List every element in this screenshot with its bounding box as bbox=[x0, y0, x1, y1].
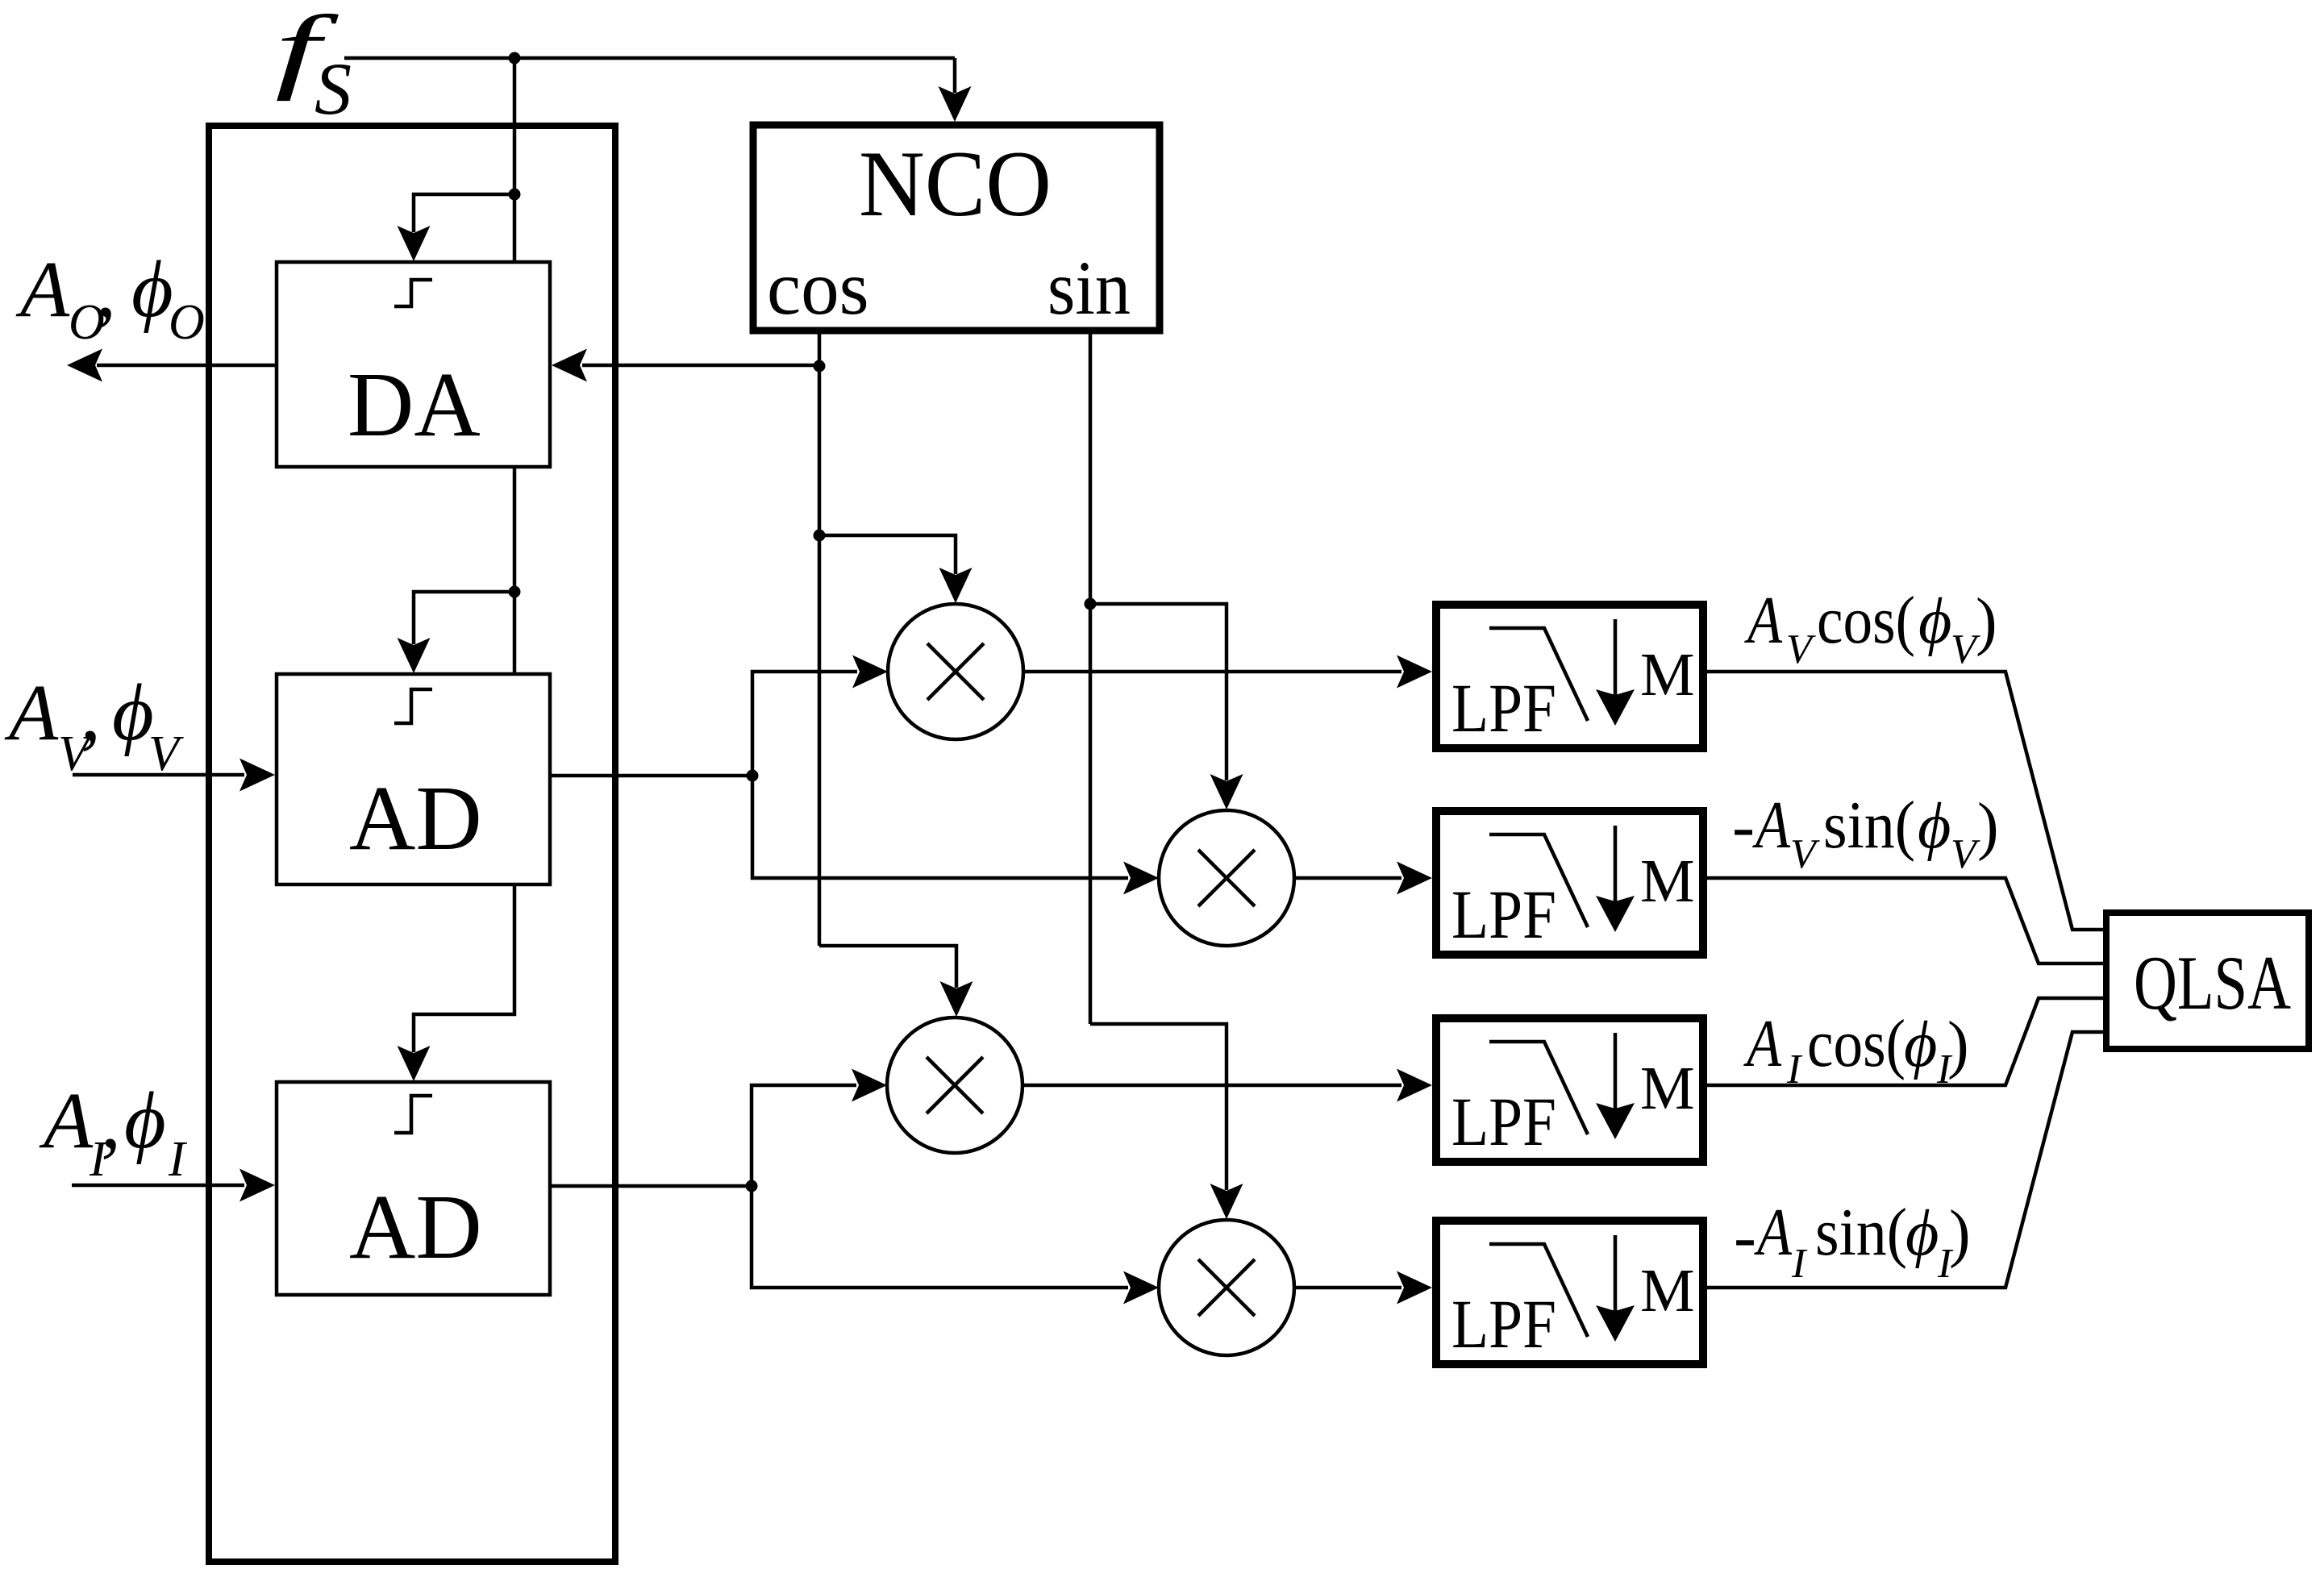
multiplier X1 bbox=[888, 604, 1023, 739]
svg-text:QLSA: QLSA bbox=[2134, 940, 2291, 1026]
label -AI sin phiI bbox=[1734, 1195, 1971, 1287]
wire mult2 output to LPF2 bbox=[1294, 862, 1432, 895]
wire cos feed into DA with arrow bbox=[552, 349, 819, 382]
svg-text:M: M bbox=[1640, 847, 1695, 915]
svg-text:AD: AD bbox=[349, 1176, 482, 1278]
svg-text:-: - bbox=[1732, 789, 1755, 863]
wire AI input arrow bbox=[72, 1169, 275, 1202]
svg-text:): ) bbox=[1976, 586, 1997, 657]
svg-text:M: M bbox=[1640, 641, 1695, 709]
clock symbol DA bbox=[394, 280, 432, 306]
clock symbol AD2 bbox=[394, 1096, 432, 1133]
svg-text:ϕ: ϕ bbox=[1904, 1009, 1937, 1080]
wire AD1 branch up to mult1 left bbox=[752, 655, 888, 776]
wire NCO sin output drop bbox=[1089, 331, 1093, 1024]
svg-text:,: , bbox=[96, 244, 116, 334]
svg-text:A: A bbox=[15, 244, 70, 334]
label AO phiO bbox=[15, 244, 205, 350]
wire AV input arrow bbox=[73, 759, 275, 792]
multiplier X3 bbox=[887, 1017, 1022, 1153]
svg-text:LPF: LPF bbox=[1451, 1083, 1556, 1160]
wire fS rail between AD1 and AD2 with clock branch bbox=[398, 884, 515, 1081]
outer frame box bbox=[209, 126, 615, 1562]
label AI phiI bbox=[39, 1076, 188, 1187]
svg-text:sin(: sin( bbox=[1823, 788, 1915, 863]
block LPF3 with decimator bbox=[1436, 1018, 1703, 1162]
wire fS vertical rail upper (to DA top) bbox=[513, 58, 517, 263]
wire fS drop into NCO with arrow bbox=[939, 58, 972, 122]
node junction AD2 output bbox=[746, 1180, 758, 1192]
svg-text:cos(: cos( bbox=[1807, 1006, 1905, 1081]
svg-text:M: M bbox=[1640, 1257, 1695, 1325]
wire mult1 output to LPF1 bbox=[1023, 655, 1432, 689]
svg-text:A: A bbox=[39, 1076, 94, 1165]
label AI cos phiI bbox=[1743, 1006, 1969, 1092]
multiplier X4 bbox=[1159, 1220, 1294, 1355]
wire fS horizontal rail bbox=[344, 56, 955, 60]
block LPF4 with decimator bbox=[1436, 1221, 1703, 1364]
wire sin branch to mult2 top bbox=[1090, 604, 1243, 809]
wire LPF4 output with diagonal to QLSA in4 bbox=[1707, 1032, 2106, 1288]
svg-text:LPF: LPF bbox=[1451, 876, 1556, 953]
wire mult3 output to LPF3 bbox=[1022, 1069, 1432, 1102]
clock symbol AD1 bbox=[394, 689, 432, 723]
label -AV sin phiV bbox=[1732, 788, 1999, 877]
svg-text:M: M bbox=[1640, 1055, 1695, 1122]
label AV cos phiV bbox=[1744, 583, 1997, 672]
block AD2 bbox=[277, 1082, 550, 1295]
svg-text:cos: cos bbox=[767, 245, 869, 331]
multiplier X2 bbox=[1159, 810, 1294, 946]
wire DA clock branch bbox=[398, 194, 515, 261]
svg-text:A: A bbox=[1752, 788, 1791, 863]
wire AD2 branch up to mult3 left bbox=[752, 1069, 887, 1187]
block LPF1 with decimator bbox=[1436, 605, 1703, 748]
node junction sin to mult2 bbox=[1085, 598, 1097, 610]
wire cos branch to mult1 top bbox=[819, 535, 972, 603]
wire LPF3 output with diagonal to QLSA in3 bbox=[1707, 998, 2106, 1085]
wire LPF2 output with diagonal to QLSA in2 bbox=[1707, 878, 2106, 963]
block DA bbox=[277, 262, 550, 467]
svg-text:V: V bbox=[1951, 831, 1980, 877]
svg-text:): ) bbox=[1977, 791, 1999, 862]
svg-text:O: O bbox=[169, 295, 205, 350]
svg-text:sin: sin bbox=[1047, 245, 1131, 331]
svg-text:V: V bbox=[1786, 626, 1816, 672]
svg-text:NCO: NCO bbox=[859, 132, 1052, 236]
svg-text:,: , bbox=[101, 1076, 121, 1165]
svg-text:ϕ: ϕ bbox=[131, 244, 173, 334]
node junction cos to mult1 bbox=[814, 530, 826, 542]
svg-text:ϕ: ϕ bbox=[1905, 1198, 1939, 1269]
svg-text:A: A bbox=[1744, 583, 1783, 658]
svg-text:ϕ: ϕ bbox=[1918, 586, 1951, 657]
block LPF2 with decimator bbox=[1436, 811, 1703, 955]
wire fS rail between DA and AD1 bbox=[513, 467, 517, 674]
label AV phiV bbox=[4, 668, 184, 781]
node junction AD1 clock bbox=[509, 586, 521, 598]
svg-text:,: , bbox=[81, 668, 101, 757]
block QLSA bbox=[2106, 913, 2309, 1049]
node junction cos to DA bbox=[814, 360, 826, 372]
svg-text:ϕ: ϕ bbox=[124, 1076, 166, 1165]
svg-text:LPF: LPF bbox=[1451, 1285, 1556, 1363]
wire mult4 output to LPF4 bbox=[1294, 1271, 1432, 1305]
wire AD2 output to junction bbox=[550, 1184, 752, 1188]
block AD1 bbox=[277, 674, 550, 884]
svg-text:I: I bbox=[1791, 1241, 1808, 1287]
wire AD1 clock branch bbox=[398, 592, 515, 673]
label fS bbox=[275, 0, 352, 130]
wire AO output arrow left bbox=[67, 349, 277, 382]
wire sin elbow to mult4 top bbox=[1090, 1024, 1243, 1219]
svg-text:): ) bbox=[1949, 1198, 1971, 1269]
svg-text:): ) bbox=[1947, 1009, 1969, 1080]
svg-text:AD: AD bbox=[349, 767, 482, 869]
node junction DA clock bbox=[509, 189, 521, 201]
svg-text:LPF: LPF bbox=[1451, 669, 1556, 747]
svg-text:V: V bbox=[1790, 831, 1820, 877]
svg-text:-: - bbox=[1734, 1199, 1756, 1274]
wire AD2 branch down to mult4 left bbox=[752, 1186, 1159, 1305]
svg-text:ϕ: ϕ bbox=[1918, 791, 1951, 862]
svg-text:I: I bbox=[168, 1132, 188, 1187]
wire NCO cos output drop bbox=[818, 331, 822, 946]
svg-text:A: A bbox=[4, 668, 59, 757]
svg-text:ϕ: ϕ bbox=[112, 668, 154, 757]
wire LPF1 output with diagonal to QLSA in1 bbox=[1707, 672, 2106, 930]
node junction fS top bbox=[509, 52, 521, 65]
wire AD1 output to junction bbox=[550, 774, 752, 778]
svg-text:sin(: sin( bbox=[1815, 1195, 1907, 1270]
wire AD1 branch down to mult2 left bbox=[752, 776, 1159, 895]
block NCO bbox=[753, 125, 1160, 331]
svg-text:S: S bbox=[314, 48, 352, 130]
node junction AD1 output bbox=[747, 770, 759, 782]
svg-text:cos(: cos( bbox=[1817, 583, 1915, 658]
wire cos elbow to mult3 top bbox=[819, 946, 973, 1017]
svg-text:DA: DA bbox=[348, 353, 481, 456]
svg-text:A: A bbox=[1743, 1006, 1782, 1081]
svg-text:A: A bbox=[1754, 1195, 1793, 1270]
